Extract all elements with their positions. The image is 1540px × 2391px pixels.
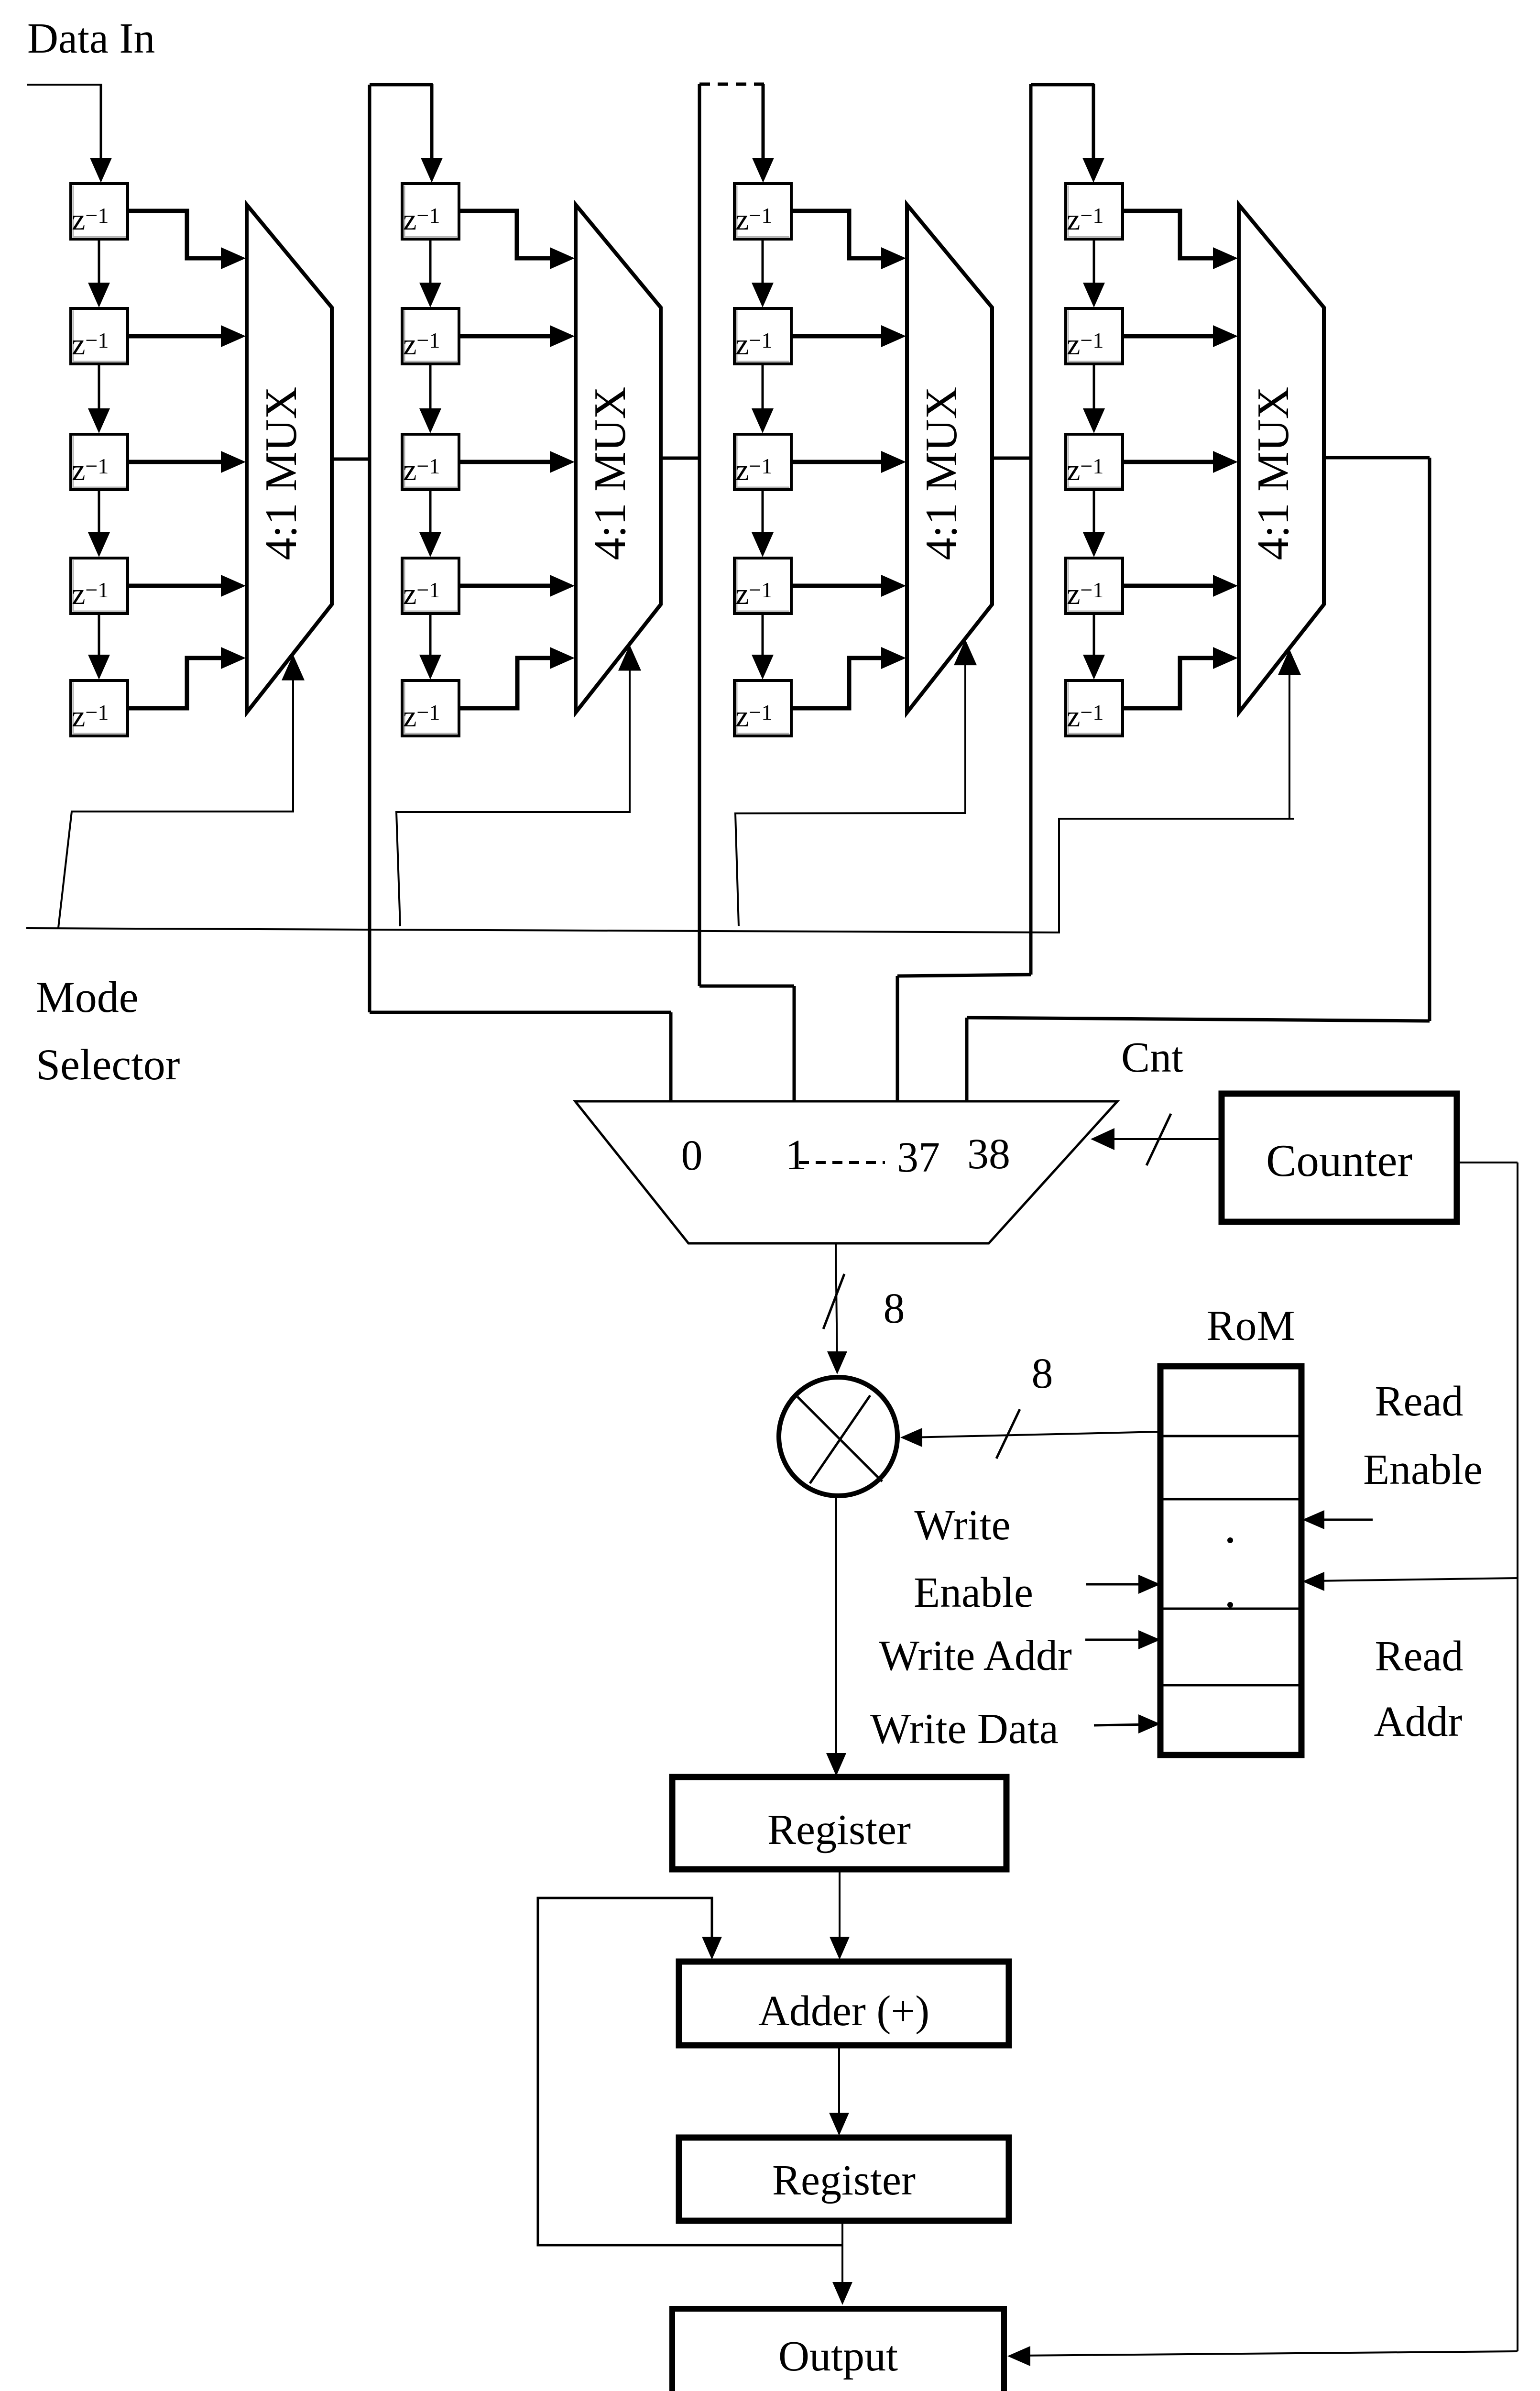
bus slash mux out (823, 1274, 844, 1329)
delay element z-1 box column 3 row 1 (734, 184, 791, 239)
wire input1 column 4 (1123, 211, 1214, 258)
wire input2 column 4 (1123, 334, 1214, 339)
svg-text:37: 37 (897, 1134, 940, 1181)
wire RoM to multiplier (911, 1432, 1160, 1437)
wire input4 column 3 (791, 584, 882, 588)
adder block (679, 1962, 1009, 2045)
svg-text:Adder (+): Adder (+) (758, 1987, 929, 2035)
4:1 MUX column 4 (1239, 205, 1324, 713)
wire column 1 box4 to box5 (98, 614, 100, 659)
wire drop into big MUX input 0 (669, 1012, 673, 1104)
wire input2 column 2 (459, 334, 551, 339)
wire column 3 box3 to box4 (762, 490, 764, 537)
select arrow column 1 (282, 655, 305, 680)
wire MUX4 output (1324, 456, 1430, 460)
wire Counter output right (1457, 1162, 1518, 1163)
bus slash rom out (996, 1409, 1020, 1459)
wire riser MUX1 out / feed col2 (368, 85, 371, 1012)
wire input3 column 3 (791, 460, 882, 464)
wire column 1 box2 to box3 (98, 364, 100, 413)
svg-text:Register: Register (767, 1806, 911, 1854)
wire input1 column 3 (791, 211, 882, 258)
wire Read Addr from counter line (1315, 1578, 1518, 1581)
wire Adder to Register2 (838, 2045, 840, 2125)
wire riser MUX2 out / feed col3 (698, 84, 701, 986)
wire input4 column 2 (459, 584, 551, 588)
wire MUX4 out riser down (1428, 458, 1431, 1021)
wire Counter feedback down right side (1517, 1163, 1518, 2351)
wire MUX3 out horizontal (897, 975, 1031, 976)
wire feed top column 4 (1031, 83, 1094, 87)
wire Write Data arrow (1094, 1724, 1150, 1725)
wire feed top column 2 (370, 83, 433, 87)
wire MUX3 output (992, 457, 1031, 460)
svg-text:Output: Output (778, 2333, 898, 2380)
wire input5 column 1 (128, 658, 222, 708)
register 2 block (679, 2138, 1009, 2221)
wire feed drop column 2 (430, 84, 434, 163)
counter block (1222, 1094, 1457, 1222)
wire MUX2 out horizontal (699, 985, 794, 988)
wire Mode Selector bus (26, 819, 1290, 932)
wire input3 column 2 (459, 460, 551, 464)
select arrow column 2 (618, 645, 641, 671)
wire into Output right (1021, 2351, 1518, 2356)
wire input2 column 1 (128, 334, 222, 339)
wire Write Enable arrow (1086, 1583, 1150, 1586)
dashed ellipsis 1..37 (799, 1161, 885, 1164)
wire column 4 box1 to box2 (1093, 239, 1095, 287)
delay element z-1 box column 2 row 1 (402, 184, 459, 239)
wire feed top column 1 (27, 84, 102, 86)
wire MUX1 output (332, 458, 370, 461)
svg-text:8: 8 (884, 1285, 905, 1332)
svg-text:Write: Write (914, 1502, 1010, 1549)
wire column 4 box4 to box5 (1093, 614, 1095, 659)
4:1 MUX column 3 (907, 205, 992, 713)
wire select route column 1 (58, 673, 293, 928)
svg-text:Counter: Counter (1266, 1135, 1412, 1186)
wire input5 column 4 (1123, 658, 1214, 708)
svg-text:38: 38 (967, 1130, 1010, 1178)
wire column 2 box1 to box2 (429, 239, 432, 287)
wire input3 column 1 (128, 460, 222, 464)
wire column 3 box2 to box3 (762, 364, 764, 413)
wire feed drop column 1 (100, 84, 102, 163)
svg-text:1: 1 (786, 1131, 807, 1179)
wire input4 column 4 (1123, 584, 1214, 588)
wire input5 column 2 (459, 658, 551, 708)
RoM divider 3 (1163, 1608, 1299, 1610)
svg-text:Mode: Mode (36, 973, 139, 1021)
4:1 MUX column 2 (576, 205, 661, 713)
wire input5 column 3 (791, 658, 882, 708)
multiplier X stroke 2 (810, 1395, 870, 1483)
wire input2 column 3 (791, 334, 882, 339)
wire big MUX output (836, 1243, 837, 1364)
svg-text:Enable: Enable (914, 1569, 1033, 1616)
select arrow column 4 (1278, 649, 1301, 675)
wire feed drop column 3 (762, 84, 765, 163)
register 1 block (672, 1777, 1006, 1869)
delay element z-1 box column 1 row 3 (71, 434, 128, 490)
delay element z-1 box column 2 row 5 (402, 680, 459, 736)
wire riser MUX3 out / feed col4 (1029, 84, 1033, 975)
bus slash Cnt (1147, 1114, 1171, 1165)
big 39:1 MUX (575, 1101, 1117, 1243)
delay element z-1 box column 3 row 4 (734, 558, 791, 614)
svg-text:Write Addr: Write Addr (879, 1632, 1072, 1679)
wire input3 column 4 (1123, 460, 1214, 464)
svg-text:Data In: Data In (27, 15, 155, 62)
delay element z-1 box column 3 row 3 (734, 434, 791, 490)
svg-text:8: 8 (1032, 1350, 1053, 1397)
wire Cnt select (1100, 1138, 1222, 1140)
delay element z-1 box column 2 row 3 (402, 434, 459, 490)
wire drop into big MUX input 37 (896, 976, 899, 1104)
wire select route column 4 (1289, 660, 1294, 819)
wire column 3 box4 to box5 (762, 614, 764, 659)
wire column 1 box3 to box4 (98, 490, 100, 537)
delay element z-1 box column 2 row 2 (402, 308, 459, 364)
svg-text:Read: Read (1375, 1633, 1464, 1680)
RoM divider 2 (1163, 1498, 1299, 1501)
wire feedback Register2 to Adder (538, 1898, 842, 2245)
svg-text:Addr: Addr (1374, 1698, 1463, 1745)
svg-text:Enable: Enable (1363, 1446, 1483, 1493)
wire input4 column 1 (128, 584, 222, 588)
delay element z-1 box column 4 row 5 (1066, 680, 1123, 736)
wire Write Addr arrow (1085, 1639, 1150, 1641)
multiplier (779, 1377, 897, 1496)
wire drop into big MUX input 1 (793, 986, 796, 1104)
delay element z-1 box column 2 row 4 (402, 558, 459, 614)
wire feed top (dashed) column 3 (699, 83, 764, 86)
wire MUX2 output (661, 457, 699, 460)
wire column 1 box1 to box2 (98, 239, 100, 287)
wire Register1 to Adder (839, 1869, 841, 1949)
wire column 4 box3 to box4 (1093, 490, 1095, 537)
wire column 2 box4 to box5 (429, 614, 432, 659)
svg-text:Write Data: Write Data (870, 1705, 1059, 1753)
wire column 4 box2 to box3 (1093, 364, 1095, 413)
wire feed drop column 4 (1092, 84, 1095, 163)
wire multiplier to Register (835, 1496, 837, 1766)
delay element z-1 box column 1 row 1 (71, 184, 128, 239)
4:1 MUX column 1 (247, 205, 332, 713)
delay element z-1 box column 1 row 2 (71, 308, 128, 364)
svg-text:4:1 MUX: 4:1 MUX (1248, 387, 1298, 560)
svg-text:4:1 MUX: 4:1 MUX (256, 387, 306, 560)
delay element z-1 box column 1 row 5 (71, 680, 128, 736)
svg-text:Register: Register (772, 2157, 916, 2204)
delay element z-1 box column 4 row 3 (1066, 434, 1123, 490)
multiplier X stroke 1 (797, 1397, 882, 1481)
wire select route column 2 (396, 661, 630, 926)
wire drop into big MUX input 38 (965, 1018, 969, 1104)
svg-text:Selector: Selector (36, 1040, 180, 1089)
svg-text:Read: Read (1375, 1378, 1464, 1425)
wire column 3 box1 to box2 (762, 239, 764, 287)
wire column 2 box3 to box4 (429, 490, 432, 537)
wire MUX1 out horizontal (370, 1011, 671, 1014)
svg-text:4:1 MUX: 4:1 MUX (917, 387, 966, 560)
wire select route column 3 (735, 662, 965, 926)
wire input1 column 2 (459, 211, 551, 258)
svg-text:Cnt: Cnt (1121, 1034, 1183, 1081)
wire column 2 box2 to box3 (429, 364, 432, 413)
delay element z-1 box column 1 row 4 (71, 558, 128, 614)
wire MUX4 out horizontal (967, 1018, 1430, 1021)
wire Read Enable arrow (1315, 1519, 1373, 1521)
wire Register2 to Output (841, 2221, 843, 2293)
RoM divider 1 (1163, 1435, 1299, 1437)
delay element z-1 box column 3 row 5 (734, 680, 791, 736)
svg-text:RoM: RoM (1206, 1302, 1295, 1349)
select arrow column 3 (954, 639, 977, 665)
svg-text:0: 0 (681, 1132, 703, 1179)
delay element z-1 box column 4 row 1 (1066, 184, 1123, 239)
svg-text:4:1 MUX: 4:1 MUX (585, 387, 635, 560)
output block (672, 2309, 1004, 2391)
delay element z-1 box column 4 row 4 (1066, 558, 1123, 614)
delay element z-1 box column 4 row 2 (1066, 308, 1123, 364)
RoM divider 4 (1163, 1684, 1299, 1687)
delay element z-1 box column 3 row 2 (734, 308, 791, 364)
wire input1 column 1 (128, 211, 222, 258)
RoM dots (1227, 1537, 1233, 1543)
